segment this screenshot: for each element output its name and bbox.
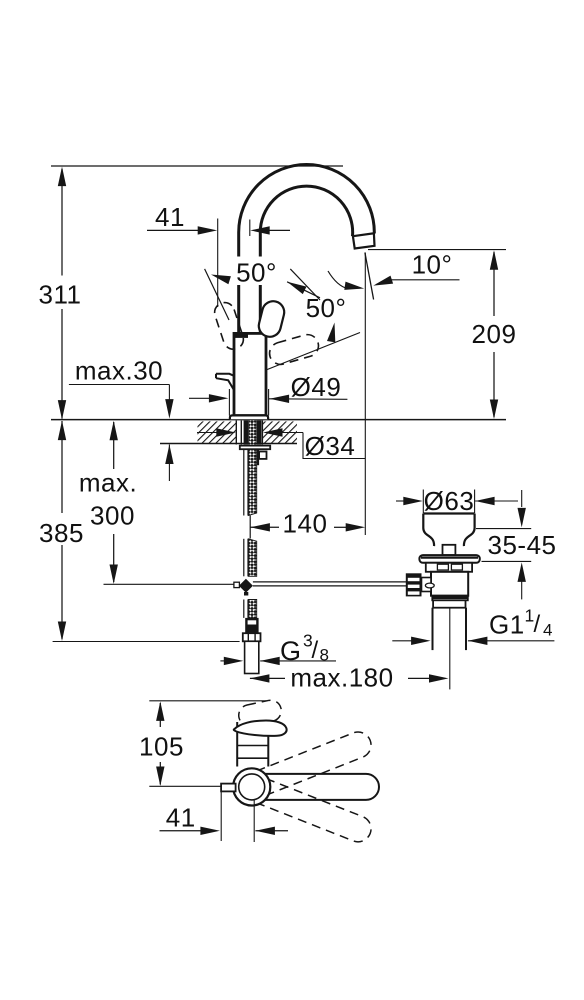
hose nut G3/8: [243, 633, 261, 641]
waste flange: [419, 555, 479, 563]
svg-text:4: 4: [543, 621, 552, 640]
extension line at spout outlet height: [368, 249, 506, 251]
svg-text:300: 300: [90, 501, 135, 531]
label 35-45: [488, 530, 557, 560]
svg-text:385: 385: [39, 518, 84, 548]
top view handle inner circle: [239, 774, 265, 800]
10 deg angle arc with arrowhead: [328, 271, 364, 290]
shank lock black bar: [257, 449, 260, 465]
body top black mark: [235, 334, 248, 338]
svg-text:140: 140: [283, 509, 328, 539]
label 105: [139, 732, 184, 762]
lever dashed position tilted right: [267, 332, 321, 367]
waste body set-screw detail: [425, 583, 434, 588]
side lever handle: [216, 374, 234, 390]
waste tailpipe: [433, 608, 467, 690]
O34 box outline: [303, 433, 366, 459]
top view body: [237, 722, 268, 767]
waste top cylinder: [423, 514, 474, 547]
O63 dimension arrows: [396, 497, 518, 505]
41 bottom dimension arrows: [160, 827, 289, 835]
svg-text:209: 209: [472, 319, 517, 349]
dimension max.180 arrows: [250, 674, 449, 682]
41 extension lines: [221, 788, 254, 842]
35-45 dimension arrows: [518, 490, 526, 599]
label 41 (handle offset): [166, 803, 196, 833]
svg-text:41: 41: [166, 803, 196, 833]
tee left fitting box: [234, 582, 240, 587]
hose end fitting: [245, 618, 258, 633]
shank walls through counter: [236, 421, 262, 445]
label 10 deg: [412, 250, 453, 280]
label 311: [39, 280, 82, 310]
svg-text:max.: max.: [79, 468, 137, 498]
vertical reference line from spout outlet: [364, 253, 366, 536]
knob connector: [422, 578, 432, 592]
O49 underline-leader and arrows: [189, 394, 347, 403]
G3/8 dimension arrows with underline: [220, 657, 336, 665]
mounting nut washer: [240, 446, 270, 450]
dimension 311 vertical line with arrows: [58, 167, 66, 420]
O34 leader and arrows: [197, 428, 303, 436]
50 deg first angle leader lines: [205, 269, 320, 320]
G3/8 connection tube: [245, 641, 259, 673]
shank cut solid bars: [244, 421, 262, 445]
label max. (of max.300): [79, 468, 137, 498]
hose end reference line (385 bottom): [53, 641, 240, 643]
O63 extension lines: [423, 490, 474, 514]
tee junction diamond: [239, 579, 253, 593]
max.30 leader with arrows: [165, 385, 173, 482]
dimension 140 arrows: [250, 523, 365, 531]
flexible hose middle segment: [244, 539, 257, 577]
top view lever dashed up position: [257, 728, 375, 795]
svg-text:Ø34: Ø34: [305, 431, 356, 461]
label G1 1/4: [489, 606, 552, 640]
50 deg second arrowhead: [327, 323, 335, 343]
10 deg underline and leader arrow: [373, 276, 459, 286]
label 50 deg (second): [306, 293, 347, 323]
max.30 underline: [69, 384, 169, 386]
label 300: [90, 501, 135, 531]
dimension 385 vertical line with arrows: [58, 421, 66, 641]
tee lower stub: [244, 592, 248, 596]
svg-text:/: /: [312, 637, 319, 664]
waste lower body: [431, 572, 468, 596]
counter cross-section hatching left: [198, 421, 237, 443]
label max.30: [75, 356, 163, 386]
flexible hose upper segment: [244, 449, 257, 515]
label 41 (spout offset): [155, 202, 185, 232]
extension line at lever tip x=217.7: [217, 219, 219, 308]
counter underside line: [160, 443, 297, 445]
label 385: [39, 518, 84, 548]
top view extension line at spout tip: [149, 700, 266, 702]
top view lever solid position: [265, 774, 379, 800]
top view spout solid shape: [234, 721, 287, 736]
hose centre line in upper gap: [249, 516, 251, 539]
50 deg first arrowheads: [211, 275, 320, 298]
top view spout dashed outline: [237, 698, 283, 727]
svg-text:Ø63: Ø63: [424, 486, 475, 516]
svg-text:311: 311: [39, 280, 82, 310]
svg-text:G1: G1: [489, 610, 525, 640]
dimension 209 vertical line with arrows: [490, 250, 498, 419]
faucet body: [234, 333, 266, 415]
35-45 extension lines: [476, 529, 531, 562]
label O49: [291, 372, 342, 402]
dimension 41 arrows and tails: [147, 226, 290, 234]
pop-up rod side fitting: [259, 452, 266, 459]
top view handle outer circle: [233, 768, 270, 805]
spout outer arc: [239, 165, 375, 334]
svg-text:/: /: [534, 611, 541, 638]
flexible hose lower segment: [244, 600, 257, 618]
G1 1/4 dimension arrows: [392, 637, 554, 645]
svg-text:max.30: max.30: [75, 356, 163, 386]
extension stub at pipe centerline: [249, 220, 251, 237]
label O34 in box: [305, 431, 356, 461]
svg-text:41: 41: [155, 202, 185, 232]
waste knurled knob: [406, 573, 422, 596]
extension line: top of spout (311 reference): [51, 165, 343, 167]
top view extension line at handle center: [149, 785, 221, 787]
waste upper body with slots: [426, 563, 472, 572]
base flange: [230, 415, 268, 419]
spout inner arc: [260, 186, 352, 333]
lever solid position (up): [256, 299, 286, 339]
counter top surface line: [51, 419, 506, 421]
svg-text:50°: 50°: [236, 258, 277, 288]
svg-text:max.180: max.180: [290, 663, 393, 693]
label G3/8: [280, 631, 329, 666]
svg-text:105: 105: [139, 732, 184, 762]
lever dashed position tilted left: [212, 300, 246, 352]
label 140: [283, 509, 328, 539]
svg-text:Ø49: Ø49: [291, 372, 342, 402]
dimension max.300 vertical line with arrows: [110, 421, 118, 584]
svg-text:50°: 50°: [306, 293, 347, 323]
svg-text:35-45: 35-45: [488, 530, 557, 560]
waste tail band: [433, 600, 465, 607]
spout aerator cap: [353, 233, 375, 248]
svg-text:10°: 10°: [412, 250, 453, 280]
O49 extension lines: [229, 389, 268, 416]
waste neck block: [443, 545, 456, 555]
50 deg second axis line: [266, 333, 360, 371]
threaded rod through counter: [249, 421, 256, 445]
dimension 105 vertical line with arrows: [156, 701, 164, 786]
waste body bottom block: [432, 596, 468, 601]
supply line to the left (max.300 reference): [104, 583, 234, 585]
label 209: [472, 319, 517, 349]
label 50 deg (first): [230, 257, 280, 288]
top view lever dashed down position: [257, 779, 375, 846]
label max.180: [290, 663, 393, 693]
top view lever tab: [221, 784, 236, 792]
water stream direction line (10 deg): [365, 253, 374, 300]
label O63: [424, 486, 475, 516]
pop-up linkage horizontal rod: [253, 582, 407, 586]
counter cross-section hatching right: [262, 421, 297, 443]
